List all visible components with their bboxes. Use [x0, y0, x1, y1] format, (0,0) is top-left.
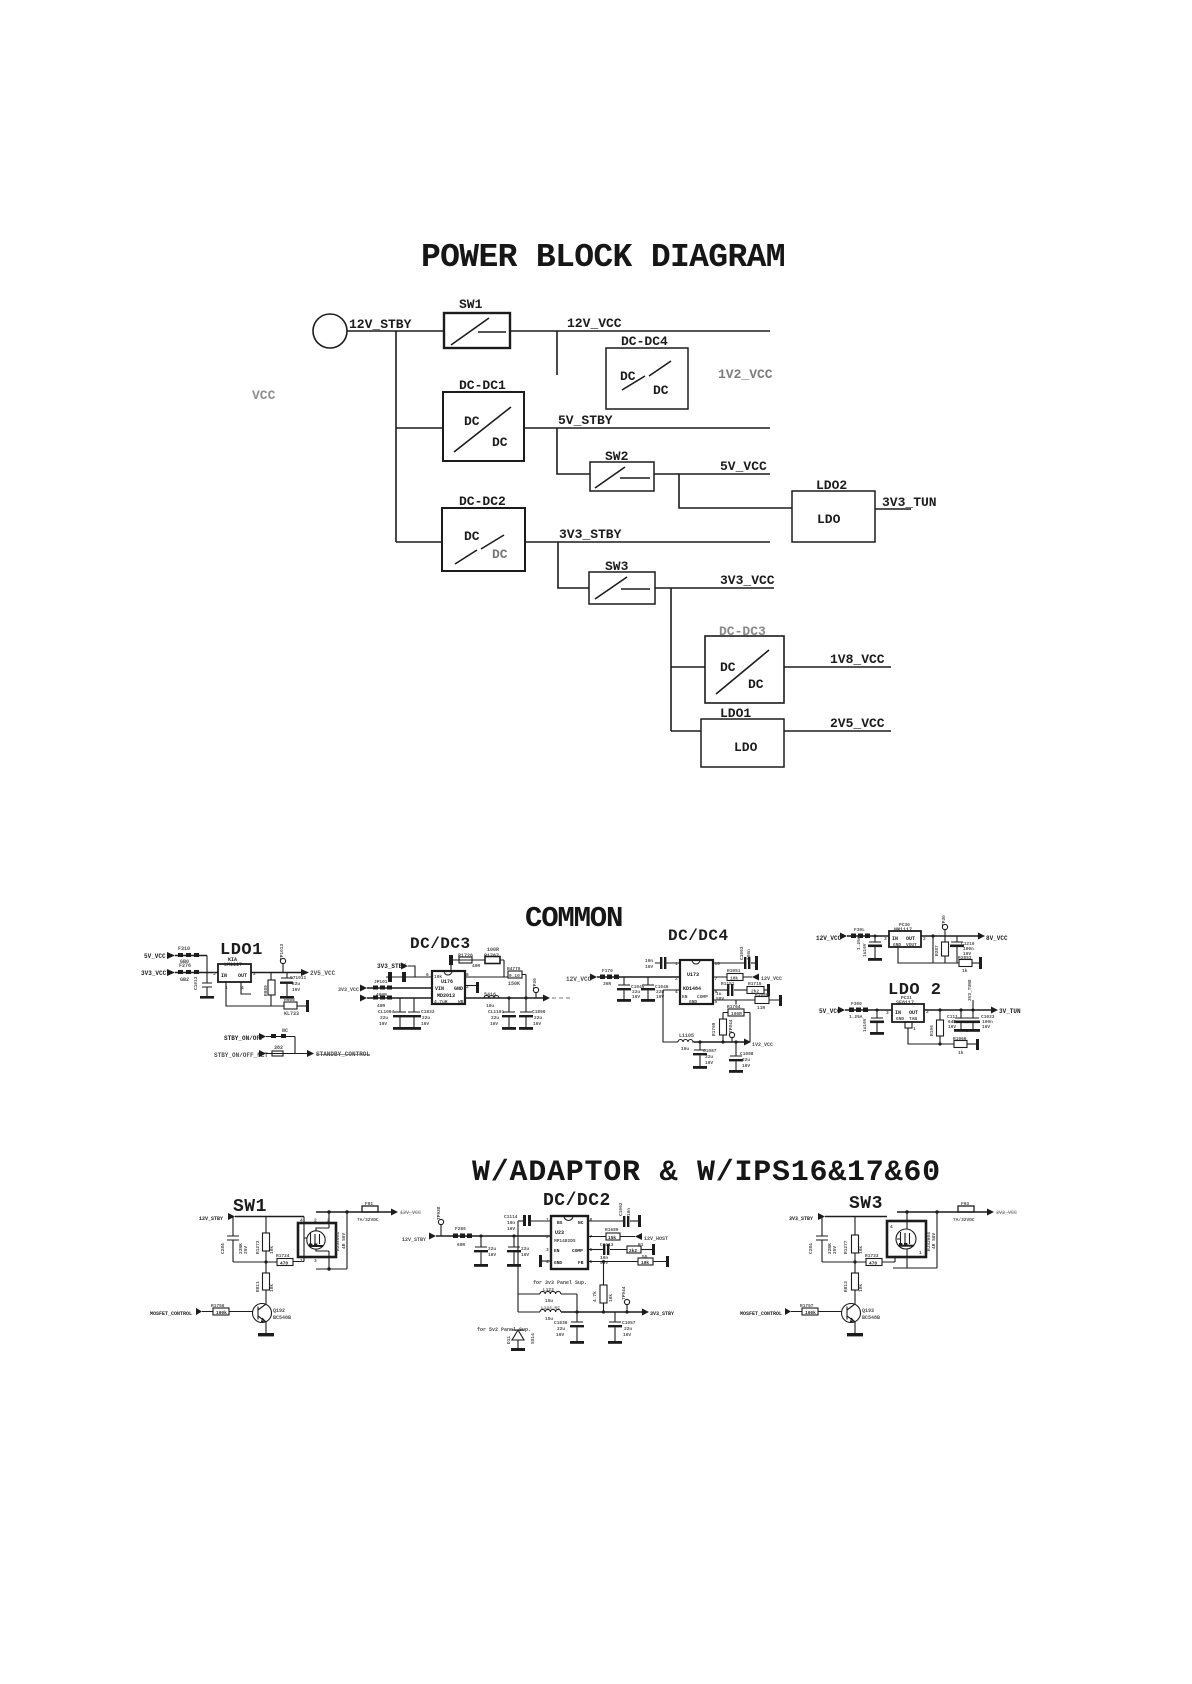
svg-text:MOSFET_CONTROL: MOSFET_CONTROL	[150, 1311, 192, 1317]
svg-text:6: 6	[426, 972, 429, 978]
svg-text:16V: 16V	[507, 1226, 515, 1232]
svg-text:F30L: F30L	[854, 927, 865, 933]
svg-text:2k2: 2k2	[629, 1248, 637, 1254]
svg-text:22u: 22u	[557, 1326, 565, 1332]
svg-text:12V_VCC: 12V_VCC	[761, 976, 782, 982]
svg-text:IN: IN	[895, 1010, 901, 1016]
pin stub bottom	[905, 1022, 912, 1028]
svg-text:1V8_VCC: 1V8_VCC	[830, 652, 885, 667]
svg-text:COMMON: COMMON	[525, 902, 622, 935]
wire 3V3_TUN out	[875, 508, 911, 510]
svg-text:10n: 10n	[645, 958, 653, 964]
svg-text:DC/DC3: DC/DC3	[410, 935, 471, 953]
svg-text:C1890: C1890	[532, 1009, 546, 1015]
wire join inputs	[206, 956, 208, 984]
svg-text:470: 470	[280, 1261, 288, 1267]
wire SW node vertical	[517, 1221, 519, 1312]
svg-text:4: 4	[546, 1259, 549, 1265]
svg-text:DC: DC	[492, 435, 508, 450]
svg-text:DC/DC2: DC/DC2	[543, 1191, 611, 1211]
svg-text:15k: 15k	[608, 1235, 616, 1241]
svg-text:DC: DC	[464, 529, 480, 544]
svg-text:DC: DC	[653, 383, 669, 398]
svg-text:3V3_VCC: 3V3_VCC	[720, 573, 775, 588]
svg-text:22u: 22u	[292, 981, 300, 987]
transistor Q192	[253, 1304, 272, 1323]
wire 12V_VCC rail	[510, 330, 770, 332]
port 5V_STBY lower	[360, 995, 367, 1002]
wire 3V3_STBY rail	[525, 541, 770, 543]
svg-text:7A/32VDC: 7A/32VDC	[953, 1217, 975, 1223]
svg-text:SS14: SS14	[530, 1333, 536, 1344]
svg-text:GND: GND	[893, 942, 901, 948]
svg-text:3: 3	[546, 1247, 549, 1253]
wire EN rail	[386, 976, 432, 978]
svg-text:10u: 10u	[681, 1046, 689, 1052]
svg-text:GND: GND	[554, 1260, 562, 1266]
capacitor C1036	[571, 1312, 583, 1322]
svg-text:R1273: R1273	[255, 1240, 261, 1254]
svg-text:GND: GND	[454, 986, 463, 992]
svg-text:SW1: SW1	[459, 297, 483, 312]
svg-text:3V3_TUN8: 3V3_TUN8	[967, 979, 973, 1001]
wire stub down to SW2	[557, 428, 590, 474]
svg-text:U23: U23	[555, 1230, 564, 1236]
svg-text:NC: NC	[282, 1028, 288, 1034]
wire SW node down to inductor	[663, 990, 680, 1042]
svg-text:LDO1: LDO1	[220, 941, 263, 960]
wire gate row	[233, 1261, 304, 1264]
svg-text:VIN: VIN	[435, 986, 444, 992]
svg-text:1u16V: 1u16V	[862, 943, 868, 957]
svg-text:LDO: LDO	[817, 512, 841, 527]
port 3V_TUN out	[991, 1007, 998, 1014]
mosfet Q3 pass switch	[887, 1221, 926, 1257]
svg-text:12V_STBY: 12V_STBY	[402, 1237, 426, 1243]
svg-text:5V_STBY: 5V_STBY	[558, 413, 613, 428]
wire FB stub terminator	[465, 985, 477, 987]
svg-text:TP844: TP844	[728, 1019, 734, 1033]
svg-text:GND: GND	[689, 999, 697, 1005]
svg-text:0.10: 0.10	[509, 973, 520, 979]
svg-text:22u: 22u	[624, 1326, 632, 1332]
wire branch to LDO1	[671, 730, 701, 732]
svg-text:16V: 16V	[488, 1252, 496, 1258]
svg-text:2: 2	[675, 976, 678, 982]
svg-text:10: 10	[715, 961, 721, 967]
svg-text:100k: 100k	[805, 1310, 816, 1316]
svg-text:3V3_TUN: 3V3_TUN	[882, 495, 937, 510]
svg-text:TP1013: TP1013	[279, 943, 285, 960]
svg-text:8: 8	[590, 1217, 593, 1223]
svg-text:TP938: TP938	[436, 1206, 442, 1220]
port out arrow	[987, 1209, 994, 1216]
capacitor CL1101	[503, 998, 515, 1012]
regulator LDO2	[792, 478, 875, 542]
svg-text:GB2: GB2	[180, 977, 189, 983]
svg-text:1k: 1k	[958, 1050, 964, 1056]
svg-text:12V_STBY: 12V_STBY	[199, 1216, 223, 1222]
svg-text:for 3v3 Panel Sup.: for 3v3 Panel Sup.	[533, 1280, 587, 1286]
svg-text:KD1484: KD1484	[683, 986, 701, 992]
svg-text:3: 3	[886, 1010, 889, 1016]
converter IC U23	[551, 1216, 588, 1269]
svg-text:SE8117: SE8117	[896, 1000, 914, 1006]
svg-text:BS: BS	[557, 1220, 563, 1226]
svg-text:R1726: R1726	[458, 953, 473, 959]
terminator on GND pin	[542, 1260, 551, 1262]
fuse F102	[367, 997, 432, 999]
svg-text:D11: D11	[506, 1336, 512, 1344]
ground	[200, 996, 214, 999]
svg-text:16V: 16V	[645, 964, 653, 970]
port 2V5_VCC out	[301, 969, 309, 976]
capacitor C1116	[512, 1234, 515, 1237]
capacitor C10 top bar	[449, 955, 453, 965]
wire output rail	[694, 1041, 744, 1043]
net stub terminator	[306, 1000, 309, 1012]
svg-text:25V: 25V	[832, 1246, 838, 1254]
svg-text:CL1094: CL1094	[378, 1009, 395, 1015]
svg-text:10k: 10k	[608, 1294, 614, 1302]
svg-text:C1057: C1057	[622, 1320, 636, 1326]
svg-text:C71011: C71011	[290, 975, 307, 981]
svg-text:1: 1	[300, 1258, 303, 1264]
wire branch to DC-DC1	[396, 427, 443, 429]
svg-text:16V: 16V	[623, 1332, 631, 1338]
svg-text:22u: 22u	[491, 1015, 499, 1021]
ground under C71011	[280, 996, 294, 999]
svg-text:R1769: R1769	[711, 1022, 717, 1036]
svg-text:1: 1	[546, 1217, 549, 1223]
svg-text:2V5_VCC: 2V5_VCC	[830, 716, 885, 731]
svg-text:C1113: C1113	[600, 1242, 614, 1248]
svg-text:Q192: Q192	[273, 1308, 285, 1314]
svg-text:5V_VCC: 5V_VCC	[720, 459, 767, 474]
svg-text:KL733: KL733	[284, 1011, 299, 1017]
svg-text:JP101: JP101	[374, 979, 388, 985]
wire SW rail right	[465, 976, 508, 978]
wire circle to SW1	[347, 330, 444, 332]
svg-text:U176: U176	[441, 979, 453, 985]
svg-text:1V2_VCC: 1V2_VCC	[718, 367, 773, 382]
port 8V_VCC out	[978, 933, 985, 940]
svg-text:R1686: R1686	[755, 992, 769, 998]
svg-text:15u: 15u	[545, 1316, 553, 1322]
svg-text:22u: 22u	[488, 1246, 496, 1252]
capacitor C1023	[967, 1010, 979, 1018]
svg-text:R2853: R2853	[958, 955, 972, 961]
svg-text:OUT: OUT	[909, 1010, 918, 1016]
svg-text:10u: 10u	[486, 1003, 494, 1009]
wire bottom feedback	[908, 1028, 954, 1044]
svg-text:COMP: COMP	[697, 994, 708, 1000]
svg-text:22u: 22u	[742, 1057, 750, 1063]
svg-text:FB: FB	[578, 1260, 584, 1266]
port 12V_VCC feedback arrow	[752, 974, 759, 981]
svg-text:VOUT: VOUT	[906, 942, 917, 948]
svg-text:LDO 2: LDO 2	[888, 981, 942, 1000]
svg-text:16V: 16V	[533, 1021, 541, 1027]
svg-text:CL1101: CL1101	[488, 1009, 505, 1015]
svg-text:MP1482DS: MP1482DS	[554, 1238, 576, 1244]
svg-text:L1105: L1105	[679, 1033, 694, 1039]
svg-text:3V3_STBY: 3V3_STBY	[789, 1216, 813, 1222]
wire from pins 1/4 down	[226, 982, 284, 1006]
svg-text:TP944: TP944	[621, 1286, 627, 1300]
svg-text:100k: 100k	[216, 1310, 227, 1316]
capacitor CL1094	[394, 998, 406, 1012]
svg-text:3: 3	[314, 1258, 317, 1264]
capacitor C1833	[408, 998, 420, 1012]
svg-text:1: 1	[675, 961, 678, 967]
wire gate row	[822, 1256, 895, 1262]
wire output rail	[465, 997, 543, 999]
capacitor C1210	[951, 936, 963, 942]
svg-text:4R 50V: 4R 50V	[931, 1232, 937, 1249]
svg-text:5V_VCC: 5V_VCC	[819, 1008, 841, 1015]
svg-text:2: 2	[466, 984, 469, 990]
svg-text:C1833: C1833	[421, 1009, 435, 1015]
capacitor C71011	[281, 973, 293, 979]
wire branch to DC-DC3	[671, 666, 705, 668]
svg-text:2V5_VCC: 2V5_VCC	[310, 970, 336, 977]
svg-text:SW3: SW3	[849, 1194, 883, 1214]
capacitor C130 input	[876, 1009, 879, 1012]
wire gate vertical	[304, 1217, 307, 1262]
svg-text:R811: R811	[255, 1281, 261, 1292]
svg-text:C1013: C1013	[193, 976, 199, 990]
converter IC U173 KD1484	[680, 960, 713, 1004]
svg-text:OUT: OUT	[238, 973, 247, 979]
svg-text:Q193: Q193	[862, 1308, 874, 1314]
svg-text:MD2013: MD2013	[437, 993, 455, 999]
svg-text:OUT: OUT	[906, 936, 915, 942]
svg-text:COMP: COMP	[572, 1248, 583, 1254]
svg-text:25V: 25V	[243, 1246, 249, 1254]
wire output rail	[561, 1311, 642, 1313]
svg-text:16V: 16V	[982, 1024, 990, 1030]
svg-text:C1114: C1114	[504, 1214, 518, 1220]
svg-text:1: 1	[919, 1250, 922, 1256]
transistor Q193	[842, 1304, 861, 1323]
svg-text:2: 2	[546, 1234, 549, 1240]
bead jumpers on EN rail	[388, 972, 392, 982]
wire 12V bus vertical	[395, 331, 397, 542]
svg-text:15u: 15u	[545, 1298, 553, 1304]
svg-text:22u: 22u	[380, 1015, 388, 1021]
capacitor C1115	[479, 1234, 482, 1237]
wire output rail	[921, 935, 978, 937]
svg-text:1V2_VCC: 1V2_VCC	[752, 1042, 773, 1048]
svg-text:7A/32VDC: 7A/32VDC	[357, 1217, 379, 1223]
svg-text:POWER BLOCK DIAGRAM: POWER BLOCK DIAGRAM	[421, 239, 785, 276]
svg-text:10k: 10k	[730, 976, 738, 982]
wire output rail	[924, 1009, 991, 1011]
svg-text:GND: GND	[896, 1016, 904, 1022]
svg-text:16V: 16V	[292, 987, 300, 993]
svg-text:SW1: SW1	[233, 1197, 267, 1217]
svg-text:DC: DC	[720, 660, 736, 675]
svg-text:100R: 100R	[731, 1011, 742, 1017]
converter IC U176 MD2013	[432, 971, 465, 1004]
svg-text:DC: DC	[620, 369, 636, 384]
wire down to DC-DC3 and LDO1	[670, 588, 672, 731]
svg-text:1: 1	[913, 1026, 916, 1032]
svg-text:16V: 16V	[521, 1252, 529, 1258]
svg-text:LM1117: LM1117	[224, 962, 242, 968]
svg-text:22u: 22u	[521, 1246, 529, 1252]
svg-text:1k: 1k	[962, 968, 968, 974]
svg-text:R1966: R1966	[953, 1036, 967, 1042]
svg-text:U173: U173	[687, 972, 699, 978]
svg-text:R1277: R1277	[843, 1240, 849, 1254]
svg-text:12V_VCC: 12V_VCC	[400, 1210, 421, 1216]
svg-text:VCC: VCC	[252, 388, 276, 403]
port 3V3_STBY out	[642, 1309, 649, 1316]
svg-text:1.25A: 1.25A	[856, 936, 862, 950]
wire top rail	[316, 1211, 391, 1213]
svg-text:16V: 16V	[705, 1060, 713, 1066]
svg-text:16V: 16V	[632, 994, 640, 1000]
regulator LDO1	[701, 706, 784, 767]
svg-text:BC548B: BC548B	[862, 1315, 880, 1321]
wire 2V5_VCC out	[784, 730, 891, 732]
svg-text:R196: R196	[929, 1025, 935, 1036]
wire feedback bottom	[898, 936, 959, 963]
capacitor C111	[955, 1010, 967, 1018]
wire 1V8_VCC out	[784, 666, 891, 668]
svg-text:22u: 22u	[422, 1015, 430, 1021]
wire stub to DC-DC4	[556, 331, 558, 375]
svg-text:MOSFET_CONTROL: MOSFET_CONTROL	[740, 1311, 782, 1317]
svg-text:3V3_STBY: 3V3_STBY	[650, 1311, 674, 1317]
converter DC-DC2	[442, 494, 525, 571]
converter DC-DC3	[705, 624, 784, 703]
svg-text:4: 4	[890, 1224, 893, 1230]
svg-text:3V_TUN: 3V_TUN	[999, 1008, 1021, 1015]
wire LDO1 output rail	[251, 972, 301, 974]
svg-text:2: 2	[923, 936, 926, 942]
resistor R988 horizontal	[284, 1002, 297, 1009]
capacitor C1087	[694, 1042, 706, 1050]
mosfet Q1 pass switch	[298, 1223, 336, 1257]
capacitor C1890	[520, 998, 532, 1012]
svg-text:3V3_VCC: 3V3_VCC	[996, 1210, 1017, 1216]
capacitor CE1210 input	[874, 935, 877, 938]
svg-text:12V_VCC: 12V_VCC	[566, 976, 592, 983]
switch SW3	[589, 559, 655, 604]
svg-text:STBY_ON/OFF: STBY_ON/OFF	[224, 1035, 264, 1042]
svg-text:W/ADAPTOR & W/IPS16&17&60: W/ADAPTOR & W/IPS16&17&60	[472, 1156, 941, 1190]
ground	[258, 1333, 274, 1336]
svg-text:C1036: C1036	[554, 1320, 568, 1326]
ground	[847, 1333, 863, 1336]
svg-text:10k: 10k	[641, 1260, 649, 1266]
svg-text:WB: WB	[458, 999, 464, 1005]
port out arrow	[391, 1209, 398, 1216]
svg-text:22u: 22u	[705, 1054, 713, 1060]
svg-text:12V_VCC: 12V_VCC	[567, 316, 622, 331]
svg-text:40R: 40R	[472, 963, 480, 969]
wire down to LDO2	[679, 474, 792, 508]
converter DC-DC1	[443, 378, 524, 461]
svg-text:NM1117: NM1117	[894, 927, 912, 933]
svg-text:3: 3	[213, 971, 216, 977]
wire 3V3_VCC rail	[655, 587, 774, 589]
junction dots	[507, 996, 510, 999]
svg-text:DC-DC1: DC-DC1	[459, 378, 506, 393]
svg-text:STANDBY_CONTROL: STANDBY_CONTROL	[316, 1051, 370, 1058]
svg-text:C1087: C1087	[703, 1048, 717, 1054]
svg-text:IN: IN	[892, 936, 898, 942]
svg-text:36R: 36R	[603, 981, 611, 987]
svg-text:DC: DC	[748, 677, 764, 692]
ground under diode	[511, 1348, 525, 1351]
svg-text:16V: 16V	[948, 1024, 956, 1030]
svg-text:12V_HOST: 12V_HOST	[644, 1236, 668, 1242]
svg-text:470: 470	[869, 1261, 877, 1267]
svg-text:C284: C284	[808, 1243, 814, 1254]
svg-text:1.25A: 1.25A	[849, 1014, 863, 1020]
svg-text:F310: F310	[178, 946, 190, 952]
svg-text:11R: 11R	[757, 1005, 765, 1011]
wire enable into rail	[408, 966, 415, 977]
svg-text:DC-DC2: DC-DC2	[459, 494, 506, 509]
svg-text:12V_VCC: 12V_VCC	[816, 935, 842, 942]
svg-text:R988: R988	[284, 997, 295, 1003]
svg-text:F286: F286	[455, 1226, 466, 1232]
svg-text:R1689: R1689	[605, 1227, 619, 1233]
wire input rail	[825, 1216, 887, 1218]
svg-text:RJS2604: RJS2604	[335, 1232, 341, 1251]
svg-text:60R: 60R	[457, 1242, 465, 1248]
svg-text:TAB: TAB	[909, 1016, 917, 1022]
svg-text:16V: 16V	[490, 1021, 498, 1027]
svg-text:10n: 10n	[507, 1220, 515, 1226]
wire 5V_STBY rail	[524, 427, 770, 429]
svg-text:4: 4	[300, 1218, 303, 1224]
port 1V2_VCC out	[744, 1039, 751, 1046]
svg-text:4R 50V: 4R 50V	[341, 1232, 347, 1249]
port 12V_HOST	[635, 1233, 642, 1240]
wire down to second row	[294, 1037, 296, 1054]
svg-text:C1062: C1062	[618, 1202, 624, 1216]
svg-text:4.7uH: 4.7uH	[434, 999, 448, 1005]
svg-text:12V_STBY: 12V_STBY	[349, 317, 412, 332]
svg-text:F276: F276	[179, 963, 191, 969]
svg-text:EN: EN	[682, 994, 688, 1000]
svg-text:8V_VCC: 8V_VCC	[986, 935, 1008, 942]
svg-text:IN: IN	[221, 973, 227, 979]
svg-text:1u16V: 1u16V	[862, 1018, 868, 1032]
svg-text:16V: 16V	[556, 1332, 564, 1338]
switch SW2	[590, 449, 654, 491]
svg-text:DC: DC	[464, 414, 480, 429]
svg-text:55: 55	[642, 1254, 648, 1260]
wire 5V_VCC rail	[654, 473, 770, 475]
port output arrow	[543, 995, 550, 1002]
input source circle	[313, 314, 347, 348]
svg-text:BC548B: BC548B	[273, 1315, 291, 1321]
svg-text:3V3_STBY: 3V3_STBY	[559, 527, 622, 542]
svg-text:2: 2	[314, 1218, 317, 1224]
capacitor C1046	[642, 977, 654, 985]
svg-text:16V: 16V	[379, 1021, 387, 1027]
svg-text:16V: 16V	[421, 1021, 429, 1027]
svg-text:50V: 50V	[716, 996, 724, 1002]
wire drain/source risers	[316, 1212, 347, 1269]
